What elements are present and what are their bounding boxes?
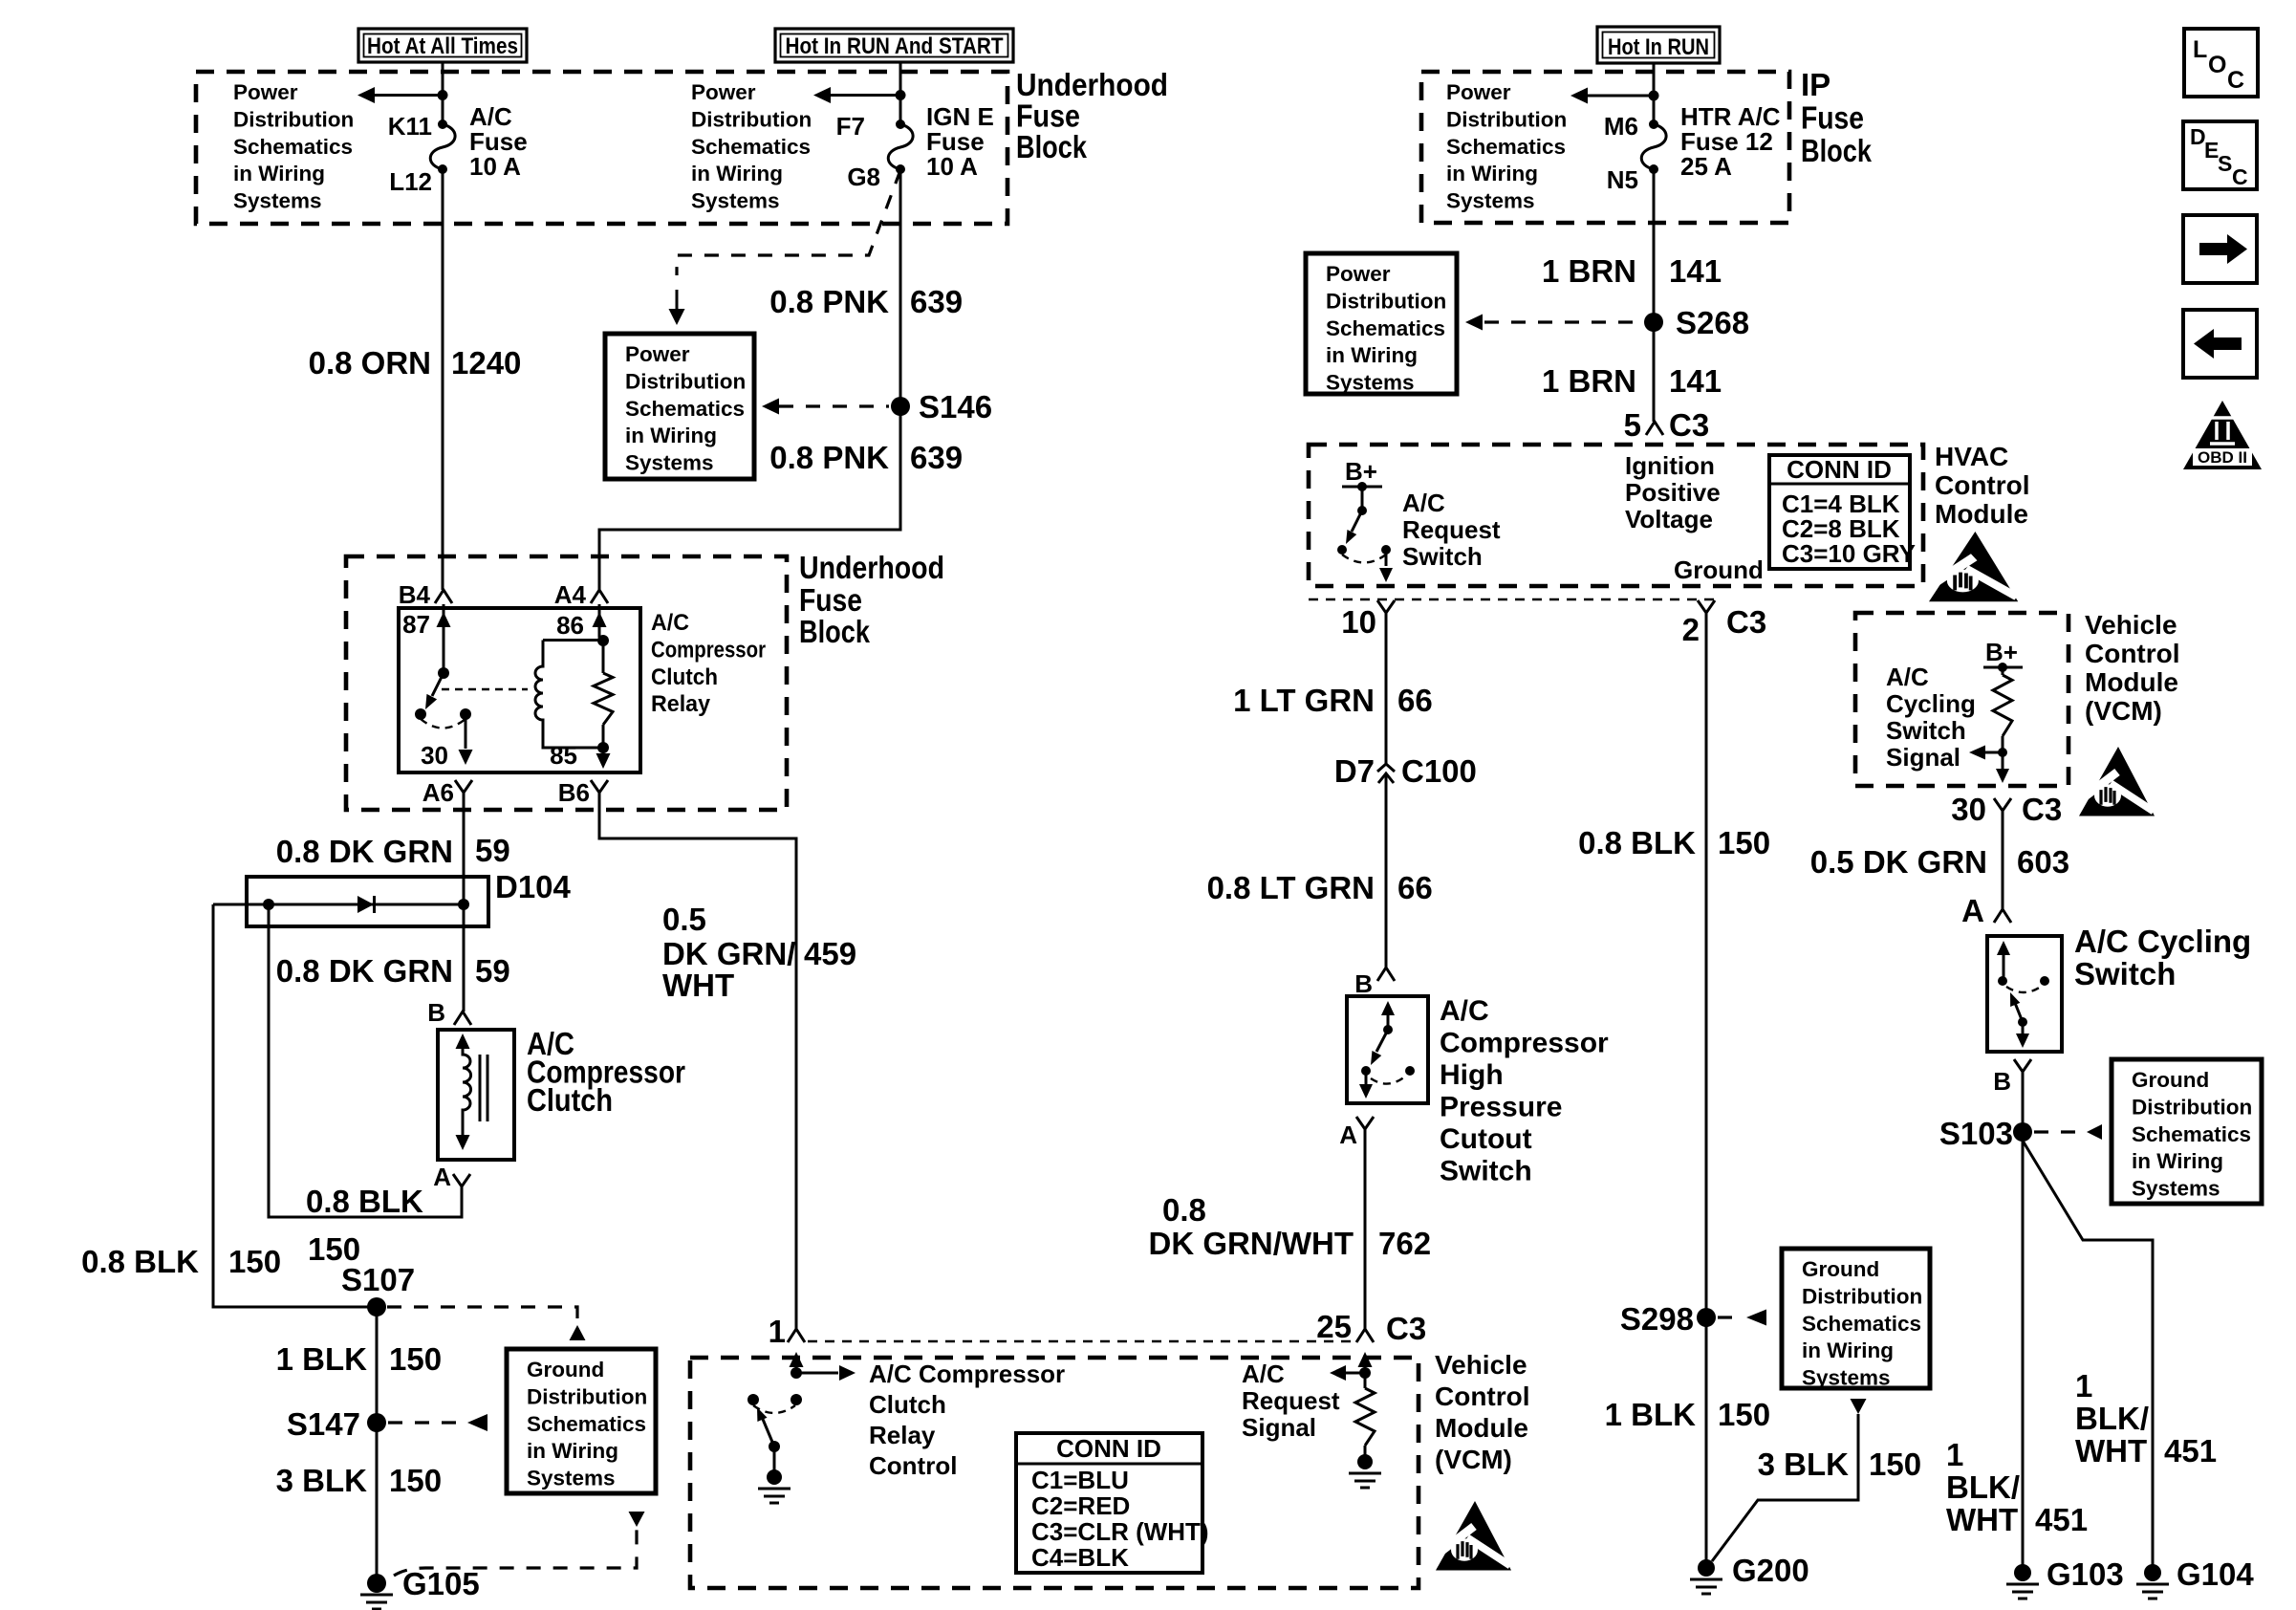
header box Hot In RUN And START xyxy=(775,29,1013,62)
VCM pin row (fine dashed) xyxy=(808,1340,1354,1343)
svg-text:S298: S298 xyxy=(1620,1301,1694,1337)
svg-text:A: A xyxy=(433,1163,451,1191)
pin 5 C3 connector of HVAC xyxy=(1653,169,1656,422)
ESD symbol (VCM bottom) xyxy=(1436,1501,1511,1571)
label Underhood Fuse Block 2 xyxy=(799,550,944,649)
svg-text:85: 85 xyxy=(550,741,577,770)
svg-text:150: 150 xyxy=(1869,1447,1921,1482)
svg-text:3 BLK: 3 BLK xyxy=(276,1463,368,1498)
svg-text:Schematics: Schematics xyxy=(625,397,745,421)
svg-text:C3: C3 xyxy=(1669,407,1709,443)
reference box Ground Distribution Schematics (center) xyxy=(1782,1249,1930,1388)
reference box Ground Distribution Schematics (right) xyxy=(2112,1059,2262,1204)
cycling switch output arrow xyxy=(2022,1022,2025,1034)
wire diode branch down to S107 xyxy=(213,904,377,1307)
svg-text:A/C: A/C xyxy=(1402,489,1445,517)
wire cycling switch B to S103 xyxy=(2022,1072,2025,1573)
svg-text:Systems: Systems xyxy=(527,1467,616,1490)
label 1 BLK/WHT 451 (left) xyxy=(1946,1437,2088,1537)
svg-text:Schematics: Schematics xyxy=(1446,135,1566,159)
VCM cycling pull-up resistor xyxy=(2002,667,2004,752)
svg-text:CONN ID: CONN ID xyxy=(1056,1434,1161,1463)
svg-text:G105: G105 xyxy=(402,1566,480,1601)
header box Hot At All Times xyxy=(358,29,527,62)
A/C compressor clutch relay box xyxy=(399,608,640,772)
svg-text:S: S xyxy=(2218,151,2232,176)
ground G103 xyxy=(2014,1564,2031,1581)
svg-text:Ground: Ground xyxy=(1802,1257,1879,1281)
svg-text:Clutch: Clutch xyxy=(869,1390,946,1419)
svg-text:D104: D104 xyxy=(495,869,572,904)
reference box Ground Distribution Schematics (left) xyxy=(507,1349,656,1493)
svg-text:Ground: Ground xyxy=(527,1358,604,1382)
svg-text:Switch: Switch xyxy=(2074,956,2176,991)
svg-text:1 BRN: 1 BRN xyxy=(1542,363,1636,399)
VCM cycling signal arrow left xyxy=(1985,751,2003,754)
svg-text:Distribution: Distribution xyxy=(691,107,812,131)
svg-text:150: 150 xyxy=(1718,1397,1770,1432)
wire from Hot At All Times into fuse block xyxy=(442,62,444,124)
relay switch contact arc (dashed) xyxy=(421,719,466,729)
svg-text:Module: Module xyxy=(1935,499,2028,529)
svg-text:C: C xyxy=(2232,164,2248,189)
ground G200 xyxy=(1698,1559,1715,1577)
A/C cycling switch box xyxy=(1987,936,2062,1052)
svg-text:Request: Request xyxy=(1242,1386,1340,1415)
ground G105 xyxy=(367,1574,386,1593)
svg-text:Systems: Systems xyxy=(2132,1177,2220,1201)
feed arrow to power distribution (right) xyxy=(831,94,900,97)
splice S147 xyxy=(367,1413,386,1432)
svg-text:1240: 1240 xyxy=(451,345,521,381)
icon OBD II triangle xyxy=(2183,401,2262,469)
svg-text:0.8 ORN: 0.8 ORN xyxy=(309,345,431,381)
pin B of cutout switch xyxy=(1377,968,1395,981)
svg-text:B+: B+ xyxy=(1985,638,2018,666)
svg-text:10: 10 xyxy=(1341,604,1376,640)
reference box Power Distribution Schematics (IP side) xyxy=(1306,253,1457,394)
diode wire through D104 xyxy=(213,903,464,906)
svg-text:10 A: 10 A xyxy=(926,152,978,181)
diode right terminal dot xyxy=(458,899,469,910)
svg-text:B4: B4 xyxy=(399,580,431,609)
svg-text:0.8 BLK: 0.8 BLK xyxy=(81,1244,199,1279)
svg-text:A/C Cycling: A/C Cycling xyxy=(2074,924,2251,959)
VCM request internal ground xyxy=(1357,1454,1373,1469)
reference box Power Distribution Schematics (center) xyxy=(605,334,754,479)
svg-text:141: 141 xyxy=(1669,253,1722,289)
HVAC request switch stem xyxy=(1361,487,1364,511)
svg-text:C1=BLU: C1=BLU xyxy=(1031,1466,1129,1494)
pin B4 connector xyxy=(435,590,452,603)
VCM cycling signal node dot xyxy=(1998,748,2007,757)
svg-text:Ground: Ground xyxy=(2132,1068,2209,1092)
svg-text:C2=RED: C2=RED xyxy=(1031,1491,1130,1520)
HVAC request switch lever xyxy=(1352,511,1362,532)
svg-text:Underhood: Underhood xyxy=(799,550,944,585)
dashed reference from S107 to ground distribution box xyxy=(387,1307,577,1322)
svg-text:Relay: Relay xyxy=(869,1421,936,1449)
junction node on IGN E fuse feed xyxy=(896,90,906,100)
relay pin 85 arrow xyxy=(602,748,605,753)
ESD symbol (HVAC) xyxy=(1929,532,2018,601)
svg-text:30: 30 xyxy=(421,741,448,770)
A/C compressor clutch box xyxy=(438,1030,514,1160)
svg-text:A/C: A/C xyxy=(1886,663,1929,691)
svg-text:B: B xyxy=(1993,1067,2011,1096)
svg-text:0.8 DK GRN: 0.8 DK GRN xyxy=(276,953,453,989)
relay mechanical link (dashed) xyxy=(442,688,528,690)
svg-text:D7: D7 xyxy=(1334,753,1375,789)
svg-text:L12: L12 xyxy=(389,167,432,196)
dashed reference from S268 xyxy=(1484,320,1642,323)
svg-text:BLK/: BLK/ xyxy=(1946,1469,2020,1505)
svg-text:59: 59 xyxy=(475,833,510,868)
wire 0.8 BLK 150 from HVAC pin 2 xyxy=(1705,613,1708,1568)
label IP Fuse Block xyxy=(1801,67,1873,168)
svg-text:0.5: 0.5 xyxy=(662,902,706,937)
wire 0.8 ORN 1240 xyxy=(442,169,444,590)
reference text Power Distribution Schematics (left) xyxy=(233,80,354,213)
diode symbol xyxy=(357,896,374,913)
relay pin 30 arrow xyxy=(465,714,467,749)
dashed reference from S103 xyxy=(2034,1130,2080,1133)
svg-text:in Wiring: in Wiring xyxy=(1802,1338,1894,1362)
svg-text:O: O xyxy=(2208,52,2226,78)
svg-text:Power: Power xyxy=(625,342,690,366)
svg-text:Systems: Systems xyxy=(1802,1366,1891,1390)
VCM relay control arrow up xyxy=(795,1362,798,1373)
wire 0.5 DK GRN 603 xyxy=(2002,811,2004,909)
svg-text:Voltage: Voltage xyxy=(1625,505,1713,533)
svg-text:Control: Control xyxy=(2085,639,2180,668)
label Vehicle Control Module (VCM) bottom xyxy=(1435,1350,1530,1474)
wire 0.8 PNK 639 xyxy=(599,169,900,590)
VCM driver switch contact dot right xyxy=(791,1394,802,1405)
svg-text:0.8 BLK: 0.8 BLK xyxy=(306,1184,423,1219)
relay contact dot to pin 30 xyxy=(460,708,471,720)
svg-text:G200: G200 xyxy=(1732,1553,1809,1588)
CONN ID table (HVAC) xyxy=(1769,455,1910,569)
cutout switch output arrow xyxy=(1365,1071,1368,1086)
compressor clutch coil with arrows xyxy=(463,1044,471,1138)
svg-text:DK GRN/: DK GRN/ xyxy=(662,936,795,971)
svg-text:0.8 BLK: 0.8 BLK xyxy=(1578,825,1696,860)
cutout switch arc (dashed) xyxy=(1371,1077,1405,1084)
svg-text:Systems: Systems xyxy=(625,451,714,475)
HVAC request output arrow xyxy=(1385,550,1388,566)
compressor clutch plates xyxy=(480,1055,487,1121)
svg-text:Relay: Relay xyxy=(651,691,711,717)
label HVAC Control Module xyxy=(1935,442,2030,529)
feed arrow to power distribution (IP) xyxy=(1588,95,1654,98)
pin 1 connector of VCM xyxy=(788,1329,805,1342)
svg-text:10 A: 10 A xyxy=(469,152,521,181)
splice S268 xyxy=(1644,313,1663,332)
svg-text:B: B xyxy=(1354,969,1373,998)
fuse HTR A/C 25A (M6-N5) xyxy=(1649,120,1658,129)
svg-text:A4: A4 xyxy=(554,580,587,609)
label 0.8 DK GRN/WHT 762 xyxy=(1149,1192,1432,1261)
pin 25 connector of VCM xyxy=(1356,1329,1374,1342)
relay resistor xyxy=(602,641,605,673)
svg-text:Systems: Systems xyxy=(691,189,780,213)
svg-text:30: 30 xyxy=(1951,792,1986,827)
svg-text:F7: F7 xyxy=(836,112,865,141)
icon DESC xyxy=(2183,121,2257,189)
svg-text:G103: G103 xyxy=(2047,1556,2124,1592)
svg-text:Compressor: Compressor xyxy=(1440,1028,1609,1059)
svg-text:Power: Power xyxy=(1446,80,1511,104)
svg-text:Block: Block xyxy=(799,614,871,649)
svg-text:Request: Request xyxy=(1402,515,1501,544)
svg-text:N5: N5 xyxy=(1607,165,1638,194)
svg-text:639: 639 xyxy=(910,284,963,319)
svg-text:Hot In RUN And START: Hot In RUN And START xyxy=(786,33,1004,59)
icon arrow left xyxy=(2183,310,2257,378)
svg-text:A: A xyxy=(1961,893,1984,928)
junction node on A/C fuse feed xyxy=(438,90,448,100)
svg-text:in Wiring: in Wiring xyxy=(691,162,783,185)
pin 30 C3 connector of VCM xyxy=(1994,798,2011,811)
svg-text:S103: S103 xyxy=(1939,1116,2013,1151)
diode box D104 xyxy=(247,877,488,926)
HVAC pin row (fine dashed) xyxy=(1309,598,1716,601)
dashed reference from S298 xyxy=(1718,1316,1740,1318)
svg-text:in Wiring: in Wiring xyxy=(2132,1149,2223,1173)
label 0.5 DK GRN/WHT 459 xyxy=(662,902,856,1003)
svg-text:A/C: A/C xyxy=(1440,995,1489,1027)
pin A6 connector xyxy=(455,780,472,793)
HVAC request switch contact left xyxy=(1337,545,1347,555)
svg-text:1: 1 xyxy=(2075,1368,2092,1403)
HVAC request switch arc (dashed) xyxy=(1342,555,1386,563)
pin A4 connector xyxy=(591,590,608,603)
svg-text:Distribution: Distribution xyxy=(625,369,746,393)
svg-text:B: B xyxy=(427,998,445,1027)
label Underhood Fuse Block xyxy=(1016,67,1168,164)
svg-text:Switch: Switch xyxy=(1440,1156,1532,1187)
svg-text:C3=10 GRY: C3=10 GRY xyxy=(1782,539,1916,568)
wire compressor A to diode (0.8 BLK 150) xyxy=(269,904,462,1217)
svg-text:(VCM): (VCM) xyxy=(2085,696,2162,726)
svg-text:(VCM): (VCM) xyxy=(1435,1445,1512,1474)
svg-text:BLK/: BLK/ xyxy=(2075,1401,2149,1436)
svg-text:451: 451 xyxy=(2164,1433,2217,1469)
svg-text:Power: Power xyxy=(1326,262,1391,286)
wire 1 BLK/WHT 451 to G104 xyxy=(2023,1141,2153,1573)
label A/C Fuse 10 A xyxy=(469,102,528,181)
svg-text:A/C Compressor: A/C Compressor xyxy=(869,1360,1065,1388)
splice S107 xyxy=(367,1297,386,1316)
ground G104 xyxy=(2144,1564,2161,1581)
svg-text:C3: C3 xyxy=(2022,792,2062,827)
svg-text:Distribution: Distribution xyxy=(1326,289,1446,313)
wire 1 LT GRN 66 xyxy=(1385,613,1388,764)
label A/C Cycling Switch Signal xyxy=(1886,663,1976,772)
label A/C Cycling Switch xyxy=(2074,924,2251,991)
feed arrow to power distribution (left) xyxy=(375,94,443,97)
pin 10 connector of HVAC xyxy=(1377,600,1395,613)
svg-text:762: 762 xyxy=(1378,1226,1431,1261)
svg-text:A6: A6 xyxy=(422,778,454,807)
wire B6 to VCM pin 1 (0.5 DK GRN/WHT 459) xyxy=(599,793,796,1329)
IP fuse block box (dashed) xyxy=(1421,72,1789,223)
label A/C Compressor Clutch Relay xyxy=(651,610,766,717)
svg-text:Schematics: Schematics xyxy=(527,1412,646,1436)
svg-text:G104: G104 xyxy=(2177,1556,2254,1592)
svg-text:Ground: Ground xyxy=(1674,555,1764,584)
svg-text:S107: S107 xyxy=(341,1262,415,1297)
cycling switch input arrow xyxy=(2003,951,2005,981)
svg-text:Block: Block xyxy=(1016,129,1088,164)
svg-text:Vehicle: Vehicle xyxy=(1435,1350,1527,1380)
dashed reference from G105 to box bottom xyxy=(394,1530,637,1576)
wire A6 to compressor clutch B xyxy=(463,793,466,1012)
svg-text:0.8 LT GRN: 0.8 LT GRN xyxy=(1207,870,1375,905)
svg-text:A/C: A/C xyxy=(1242,1360,1285,1388)
dashed arrow into power distribution box top xyxy=(676,290,679,309)
svg-text:Signal: Signal xyxy=(1242,1413,1316,1442)
label A/C Compressor High Pressure Cutout Switch xyxy=(1440,995,1609,1187)
svg-text:C: C xyxy=(2227,67,2244,94)
svg-text:DK GRN/WHT: DK GRN/WHT xyxy=(1149,1226,1354,1261)
wire from Hot In RUN into IP fuse block xyxy=(1653,63,1656,124)
VCM relay control arrow right xyxy=(796,1372,838,1375)
VCM driver switch lever xyxy=(762,1417,774,1447)
cutout switch contact dot xyxy=(1361,1066,1371,1076)
svg-text:Control: Control xyxy=(1435,1382,1530,1411)
svg-text:Power: Power xyxy=(233,80,298,104)
svg-text:25 A: 25 A xyxy=(1680,152,1732,181)
label Ignition Positive Voltage xyxy=(1625,451,1721,533)
svg-text:Hot At All Times: Hot At All Times xyxy=(367,33,518,59)
relay pin 86 arrow xyxy=(599,604,603,642)
svg-text:150: 150 xyxy=(389,1463,442,1498)
svg-text:Positive: Positive xyxy=(1625,478,1721,507)
svg-text:Systems: Systems xyxy=(1446,189,1535,213)
cutout switch lever xyxy=(1376,1030,1388,1052)
icon LOC xyxy=(2184,29,2258,97)
svg-text:Systems: Systems xyxy=(1326,371,1415,395)
svg-text:in Wiring: in Wiring xyxy=(527,1439,618,1463)
svg-text:C3=CLR (WHT): C3=CLR (WHT) xyxy=(1031,1517,1209,1546)
svg-text:in Wiring: in Wiring xyxy=(1446,162,1538,185)
svg-text:High: High xyxy=(1440,1059,1504,1091)
vehicle control module box (dashed) xyxy=(690,1358,1419,1588)
label Vehicle Control Module (VCM) right xyxy=(2085,610,2180,726)
fuse IGN E 10A (F7-G8) xyxy=(896,120,905,129)
VCM request pull-up resistor xyxy=(1355,1388,1375,1446)
svg-text:1: 1 xyxy=(769,1314,786,1349)
label A/C Compressor Clutch xyxy=(527,1026,685,1118)
svg-text:WHT: WHT xyxy=(1946,1502,2018,1537)
header box Hot In RUN xyxy=(1597,27,1720,63)
dashed reference from S147 xyxy=(388,1421,459,1424)
inline connector D7 C100 xyxy=(1377,764,1395,783)
ESD symbol (VCM right) xyxy=(2079,747,2155,816)
relay coil junction top xyxy=(597,635,609,646)
svg-text:Ignition: Ignition xyxy=(1625,451,1715,480)
relay coil xyxy=(535,641,603,749)
label HTR A/C Fuse 12 25 A xyxy=(1680,102,1781,181)
svg-text:C4=BLK: C4=BLK xyxy=(1031,1543,1129,1572)
svg-text:IP: IP xyxy=(1801,67,1830,102)
svg-text:0.8 DK GRN: 0.8 DK GRN xyxy=(276,834,453,869)
svg-text:451: 451 xyxy=(2035,1502,2088,1537)
pin A of cycling switch xyxy=(1994,909,2011,923)
svg-text:M6: M6 xyxy=(1604,112,1638,141)
svg-text:Schematics: Schematics xyxy=(691,135,811,159)
svg-text:150: 150 xyxy=(389,1341,442,1377)
svg-text:Control: Control xyxy=(869,1451,957,1480)
svg-text:459: 459 xyxy=(804,936,856,971)
relay switch contact dot (movable) xyxy=(415,708,426,720)
VCM driver internal ground xyxy=(773,1447,776,1474)
svg-text:1 BLK: 1 BLK xyxy=(276,1341,368,1377)
label 1 BLK/WHT 451 (right) xyxy=(2075,1368,2217,1469)
svg-text:Cutout: Cutout xyxy=(1440,1123,1532,1155)
svg-text:1 BRN: 1 BRN xyxy=(1542,253,1636,289)
svg-text:C3: C3 xyxy=(1386,1311,1426,1346)
svg-text:Fuse: Fuse xyxy=(1801,100,1864,136)
relay switch common dot xyxy=(438,667,449,679)
cutout switch top dot xyxy=(1383,1025,1393,1034)
svg-text:Pressure: Pressure xyxy=(1440,1092,1562,1123)
VCM driver switch pivot dot xyxy=(769,1441,780,1452)
svg-text:B+: B+ xyxy=(1345,457,1377,486)
svg-text:A: A xyxy=(1339,1120,1357,1149)
label A/C Request Signal xyxy=(1242,1360,1340,1442)
wire S107 to S147 xyxy=(376,1307,379,1583)
svg-text:1 LT GRN: 1 LT GRN xyxy=(1233,683,1375,718)
svg-text:66: 66 xyxy=(1397,870,1433,905)
svg-text:Schematics: Schematics xyxy=(2132,1122,2251,1146)
label A/C Compressor Clutch Relay Control xyxy=(869,1360,1065,1480)
wire 0.8 DK GRN/WHT 762 xyxy=(1364,1129,1367,1329)
svg-text:Distribution: Distribution xyxy=(527,1384,647,1408)
VCM request signal arrow up xyxy=(1364,1362,1367,1373)
svg-text:A/C: A/C xyxy=(651,610,689,636)
fuse A/C 10A (K11-L12) xyxy=(438,120,447,129)
splice S146 xyxy=(891,397,910,416)
svg-text:1: 1 xyxy=(1946,1437,1963,1472)
svg-text:Power: Power xyxy=(691,80,756,104)
label IGN E Fuse 10 A xyxy=(926,102,994,181)
svg-text:Distribution: Distribution xyxy=(1446,107,1567,131)
reference text Power Distribution Schematics (IP) xyxy=(1446,80,1567,213)
VCM driver switch arc (dashed) xyxy=(753,1405,795,1413)
reference text Power Distribution Schematics (right) xyxy=(691,80,812,213)
svg-text:5: 5 xyxy=(1624,407,1641,443)
A/C compressor high pressure cutout switch box xyxy=(1347,996,1428,1103)
wire 3 BLK 150 xyxy=(1712,1414,1858,1561)
svg-text:Switch: Switch xyxy=(1402,542,1483,571)
diode left terminal dot xyxy=(263,899,274,910)
svg-text:0.5 DK GRN: 0.5 DK GRN xyxy=(1810,844,1987,880)
svg-text:1 BLK: 1 BLK xyxy=(1605,1397,1697,1432)
svg-text:CONN ID: CONN ID xyxy=(1787,455,1892,484)
svg-text:WHT: WHT xyxy=(662,968,734,1003)
svg-text:Compressor: Compressor xyxy=(651,637,766,663)
wire from Hot In RUN And START into fuse block xyxy=(899,62,902,124)
cycling switch pivot dot xyxy=(2018,1017,2027,1027)
svg-text:Systems: Systems xyxy=(233,189,322,213)
svg-text:639: 639 xyxy=(910,440,963,475)
svg-text:Hot In RUN: Hot In RUN xyxy=(1608,34,1709,60)
pin B of cycling switch xyxy=(2014,1059,2031,1072)
cycling switch left contact dot xyxy=(1998,976,2007,986)
